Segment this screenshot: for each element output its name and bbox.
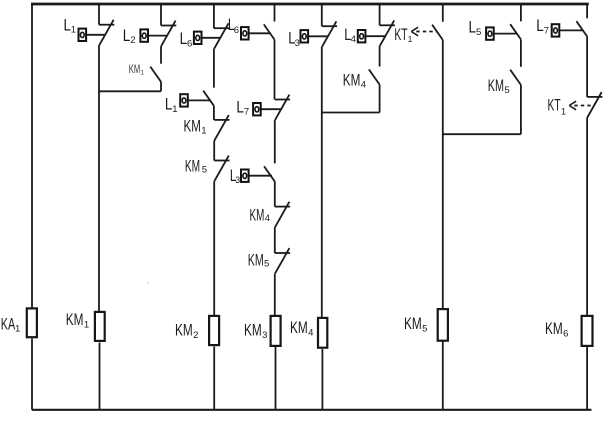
- svg-text:5: 5: [422, 323, 427, 334]
- svg-text:4: 4: [361, 80, 366, 91]
- svg-text:5: 5: [202, 165, 207, 176]
- svg-text:L: L: [123, 27, 131, 45]
- svg-text:KM: KM: [175, 322, 193, 340]
- svg-text:KM: KM: [343, 72, 361, 90]
- svg-text:KM: KM: [488, 77, 504, 95]
- svg-text:L: L: [469, 19, 477, 37]
- svg-text:·: ·: [147, 278, 150, 288]
- svg-text:1: 1: [15, 323, 20, 334]
- svg-text:KM: KM: [66, 311, 84, 329]
- svg-text:4: 4: [265, 213, 270, 224]
- svg-text:2: 2: [193, 330, 198, 341]
- svg-text:1: 1: [561, 106, 566, 116]
- svg-text:KM: KM: [244, 322, 262, 340]
- svg-text:1: 1: [84, 319, 89, 330]
- svg-text:6: 6: [563, 328, 568, 339]
- svg-text:L: L: [165, 96, 173, 114]
- svg-text:L: L: [536, 17, 544, 35]
- svg-text:6: 6: [187, 39, 192, 50]
- svg-text:KM: KM: [290, 319, 308, 337]
- svg-text:7: 7: [544, 26, 549, 37]
- svg-text:KM: KM: [184, 118, 201, 136]
- svg-text:5: 5: [476, 27, 481, 38]
- svg-text:KM: KM: [250, 206, 265, 224]
- svg-text:L: L: [236, 98, 244, 116]
- svg-text:KM: KM: [404, 315, 422, 333]
- svg-text:KM: KM: [185, 158, 200, 176]
- svg-text:6: 6: [234, 25, 239, 36]
- svg-text:5: 5: [504, 85, 509, 96]
- svg-text:3: 3: [295, 38, 300, 49]
- svg-text:KM: KM: [545, 320, 563, 338]
- svg-text:1: 1: [408, 34, 413, 44]
- svg-text:KM: KM: [129, 62, 140, 76]
- svg-text:KT: KT: [548, 96, 561, 114]
- svg-text:1: 1: [71, 25, 76, 36]
- svg-text:1: 1: [172, 104, 177, 115]
- svg-text:L: L: [180, 30, 188, 48]
- svg-text:2: 2: [130, 35, 135, 46]
- svg-text:KA: KA: [1, 316, 15, 334]
- svg-text:4: 4: [308, 327, 313, 338]
- svg-text:KM: KM: [248, 252, 264, 270]
- svg-text:1: 1: [140, 69, 144, 76]
- svg-text:KT: KT: [394, 26, 407, 44]
- svg-text:5: 5: [264, 259, 269, 270]
- svg-text:3: 3: [262, 330, 267, 341]
- svg-text:4: 4: [351, 34, 356, 45]
- svg-text:1: 1: [201, 126, 206, 137]
- svg-text:3: 3: [235, 175, 240, 185]
- svg-text:7: 7: [244, 107, 249, 118]
